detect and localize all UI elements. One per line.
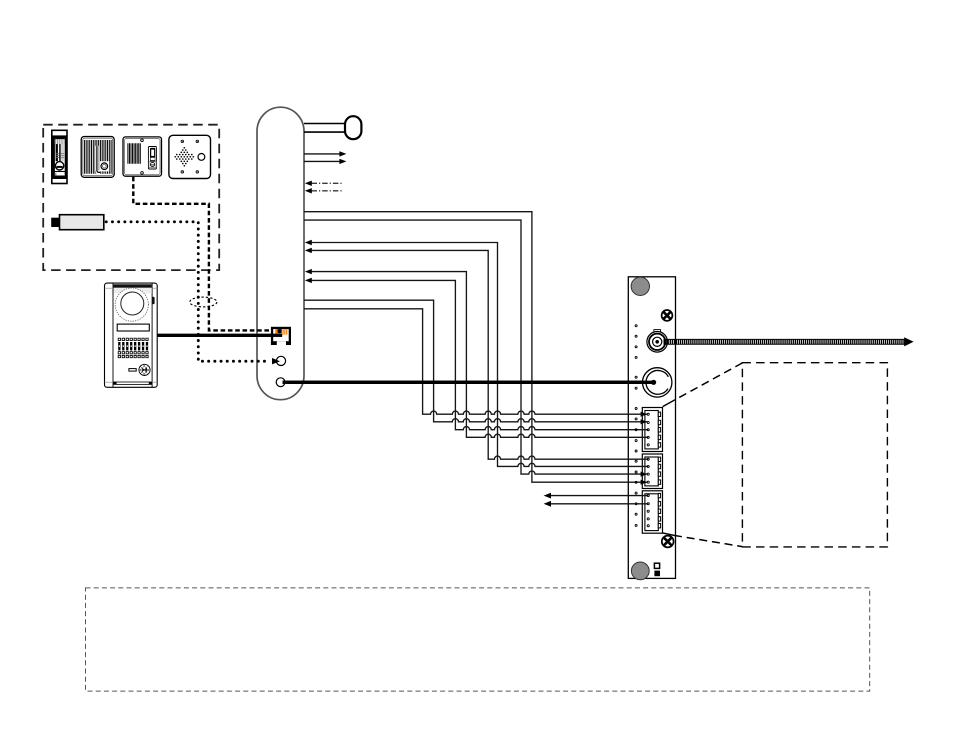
intercom speaker grille xyxy=(81,137,114,178)
harness wire 5 xyxy=(305,269,648,437)
control unit board (base) xyxy=(628,277,675,579)
incoming dash-dot arrow 2 xyxy=(305,188,344,193)
video hub socket xyxy=(283,368,672,397)
LED indicator outline xyxy=(654,563,659,568)
outgoing arrow 2 xyxy=(304,159,346,164)
cable bundle ellipse xyxy=(190,297,217,307)
video input port xyxy=(272,356,286,365)
aux output arrow 1 xyxy=(544,493,649,499)
incoming dash-dot arrow 1 xyxy=(305,181,344,186)
cctv camera xyxy=(51,215,104,230)
door speaker station xyxy=(169,135,211,178)
thick line: door station to RJ45 jack xyxy=(157,334,282,337)
microphone capsule xyxy=(304,116,361,139)
legend dashed box xyxy=(86,588,870,691)
thick line: post to control unit video hub xyxy=(283,380,657,385)
harness wire 6 xyxy=(305,278,648,430)
screw bottom xyxy=(662,536,674,548)
entrance post xyxy=(257,107,304,400)
dotted cable: camera to video input xyxy=(106,222,269,361)
screw top xyxy=(662,310,673,321)
harness wire 1 xyxy=(304,212,648,485)
RJ45 jack xyxy=(271,327,291,346)
terminal contact dots xyxy=(647,413,649,527)
callout leader top xyxy=(663,404,668,407)
outgoing arrow 1 xyxy=(304,151,346,156)
monitor output port xyxy=(276,378,285,387)
dashed enclosure: door hardware group xyxy=(43,125,219,270)
electric door strike xyxy=(52,130,67,183)
terminal block TB1 xyxy=(642,408,662,452)
callout leader bottom xyxy=(662,533,674,536)
harness wire 3 xyxy=(305,240,648,467)
harness wire 8 xyxy=(304,309,648,417)
pin hole column xyxy=(635,325,637,527)
harness wire 7 xyxy=(304,300,648,424)
BNC video connector xyxy=(647,330,668,353)
video door station xyxy=(105,283,158,387)
aux output arrow 2 xyxy=(544,501,649,507)
top grommet xyxy=(631,277,649,295)
detail callout box xyxy=(742,363,887,547)
bottom grommet xyxy=(631,562,649,580)
LED indicator filled xyxy=(654,571,660,577)
harness wire 2 xyxy=(304,220,648,477)
dashed cable: intercom station to RJ45 xyxy=(133,177,270,331)
harness wire 4 xyxy=(305,248,648,460)
terminal block TB2 xyxy=(642,454,662,489)
coax cable to monitor xyxy=(664,337,914,346)
audio intercom station with switch xyxy=(123,137,162,176)
terminal block TB3 xyxy=(642,491,662,533)
